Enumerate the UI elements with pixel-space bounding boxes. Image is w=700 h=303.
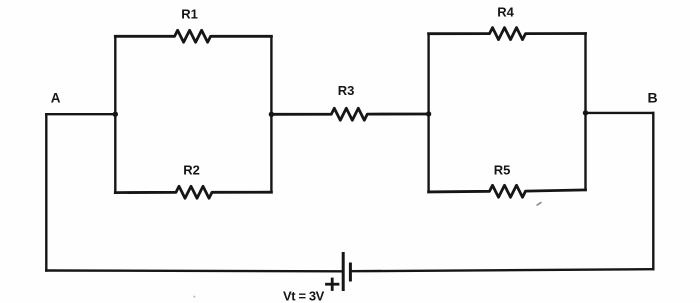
svg-text:R2: R2: [183, 163, 200, 178]
wire block1 left vertical: [114, 36, 116, 192]
junction dot at block2 right: [583, 110, 588, 115]
wire block2 left vertical: [427, 34, 429, 192]
wire block1 right vertical: [270, 36, 272, 192]
battery Vt negative plate (short): [349, 264, 352, 280]
stray scan speck bottom: [193, 296, 195, 298]
svg-text:R4: R4: [497, 5, 514, 20]
svg-text:Vt = 3V: Vt = 3V: [283, 289, 325, 303]
wire right side vertical: [652, 113, 654, 269]
stray scan mark near R5: [537, 203, 541, 205]
battery plus sign: [327, 279, 339, 290]
svg-text:R1: R1: [181, 7, 198, 22]
wire from node A to left junction: [46, 113, 115, 115]
wire from right junction to node B corner: [586, 112, 654, 114]
battery Vt positive plate (long): [342, 254, 345, 290]
svg-text:A: A: [51, 91, 61, 106]
wire bottom left to battery: [46, 269, 341, 272]
resistor R3: [271, 108, 428, 120]
wire left side vertical: [45, 114, 47, 270]
svg-text:R5: R5: [494, 163, 511, 178]
junction dot at A-side split: [113, 112, 118, 117]
resistor R2: [115, 186, 271, 198]
wire bottom right from battery: [352, 269, 653, 271]
svg-text:R3: R3: [338, 83, 355, 98]
resistor R5: [429, 185, 586, 197]
resistor R1: [115, 30, 271, 42]
junction dot at block1 right: [269, 112, 274, 117]
resistor R4: [429, 28, 586, 40]
svg-text:B: B: [648, 90, 658, 106]
junction dot at block2 left: [426, 111, 431, 116]
wire block2 right vertical: [584, 34, 586, 190]
